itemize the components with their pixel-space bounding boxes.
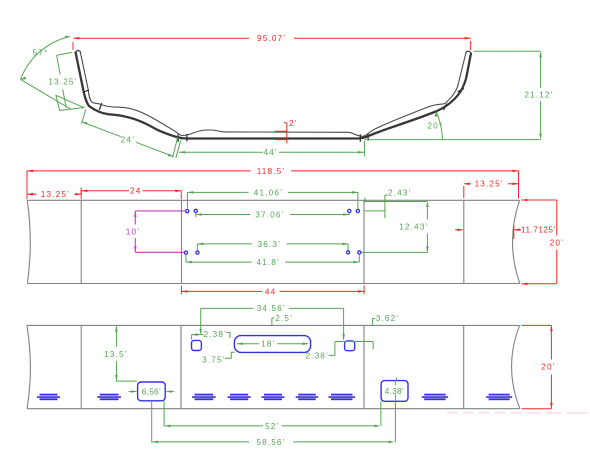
dimension 21.12 (green, right height) [474, 51, 554, 139]
svg-text:58.56’: 58.56’ [256, 438, 285, 447]
svg-text:13.25’: 13.25’ [41, 190, 70, 199]
tow hole box right (4.38) [381, 381, 408, 402]
svg-text:12.43’: 12.43’ [399, 222, 428, 231]
dimension 3.75 left (green) [202, 352, 235, 364]
svg-text:44: 44 [265, 287, 276, 296]
front bend line 2 [180, 325, 182, 408]
holes top row (blue) [184, 209, 361, 254]
svg-text:2.5’: 2.5’ [275, 314, 293, 323]
front bottom edge [27, 408, 520, 410]
svg-text:44’: 44’ [264, 148, 278, 157]
svg-text:10’: 10’ [126, 227, 140, 236]
dimension 13.25 right (red) [464, 180, 519, 199]
big arrow at elbow [56, 95, 84, 110]
louvre 7 [329, 394, 356, 400]
dimension 41.8 (green) [186, 254, 359, 267]
louvre 6 [296, 394, 319, 400]
dimension 20 (red, bottom right) [522, 325, 556, 408]
dimension 6.56 (green, in box) [129, 387, 174, 396]
plate left arc edge [27, 200, 30, 283]
dimension 24 (red) [81, 187, 181, 200]
svg-text:41.06’: 41.06’ [254, 188, 283, 197]
svg-text:2.38’: 2.38’ [305, 352, 329, 361]
svg-text:118.5’: 118.5’ [257, 167, 286, 176]
louvre 3 [192, 394, 216, 400]
dimension 13.5 (green) [104, 326, 137, 382]
joint tick right diagonal [444, 104, 447, 109]
svg-text:20°: 20° [427, 122, 443, 131]
joint ticks right flat bend [360, 134, 368, 141]
dimension 41.06 (green) [187, 188, 358, 209]
louvres (blue vents) [37, 394, 512, 400]
svg-text:24: 24 [130, 187, 141, 196]
dimension 2.38 left (green) [192, 330, 230, 340]
svg-text:13.5’: 13.5’ [104, 350, 128, 359]
joint tick right bar [458, 89, 464, 92]
dimension 13.25 (green, left bar) [48, 52, 83, 110]
front bend line 3 [363, 325, 365, 408]
svg-text:3.75’: 3.75’ [202, 355, 226, 364]
svg-text:13.25’: 13.25’ [475, 180, 504, 189]
bumper outer contour (thick) [76, 53, 471, 139]
dimension 24 (green, left diagonal) [82, 110, 178, 158]
svg-text:24’: 24’ [121, 136, 135, 145]
joint tick left bar [83, 90, 89, 92]
svg-text:34.56’: 34.56’ [257, 304, 286, 313]
dimension 20 deg (green, right) [364, 111, 540, 139]
dimension 18 (green, slot) [237, 339, 309, 348]
dimension 12.43 (green) [361, 198, 429, 253]
dimension 13.25 left (red) [27, 190, 81, 199]
front bend line 1 [80, 325, 82, 408]
dimension 95.07 (red, top overall) [73, 34, 471, 50]
bend line 2 [181, 200, 183, 283]
svg-text:36.3’: 36.3’ [258, 240, 282, 249]
dimension 3.62 (green leader) [372, 314, 399, 326]
dimension 2.38 right (green) [305, 342, 373, 361]
louvre 5 [262, 394, 285, 400]
bend line 3 [363, 200, 365, 283]
holes bottom row (blue) [184, 251, 187, 254]
small square hole left [192, 340, 202, 350]
tow hole box left (6.56) [138, 382, 166, 401]
dimension 57 deg (green angle arc) [20, 36, 70, 109]
svg-text:37.06’: 37.06’ [255, 210, 284, 219]
svg-text:41.8’: 41.8’ [256, 258, 280, 267]
svg-text:4.38’: 4.38’ [385, 387, 404, 396]
dimension 36.3 (green) [197, 240, 348, 251]
dimension 44 (green, top view center) [176, 140, 365, 159]
dimension 118.5 (red overall middle) [27, 167, 519, 200]
svg-text:57°: 57° [33, 48, 49, 57]
svg-text:2’: 2’ [289, 119, 298, 128]
svg-text:2.43’: 2.43’ [388, 188, 412, 197]
louvre 4 [228, 394, 251, 400]
dimension 2 (red, center channel height) [275, 119, 298, 143]
center slot 18in (blue) [234, 336, 310, 353]
right tip cap [466, 51, 471, 54]
svg-text:95.07’: 95.07’ [257, 34, 286, 43]
dimension 11.7125 (red) [455, 225, 556, 239]
front right arc edge [512, 325, 520, 408]
svg-text:2.38’: 2.38’ [204, 330, 228, 339]
watermark dashes (faint pink) [447, 412, 588, 413]
plate right arc edge [512, 200, 519, 283]
bend line 4 [463, 200, 465, 283]
dimension 2.5 (green leader) [272, 314, 293, 326]
joint tick left diagonal [100, 104, 102, 110]
svg-text:3.62’: 3.62’ [376, 314, 400, 323]
front top edge [27, 324, 520, 326]
joint ticks left flat bend [178, 135, 187, 142]
louvre 8 [422, 394, 448, 400]
svg-text:18’: 18’ [261, 339, 275, 348]
bend line 1 [80, 200, 82, 283]
dimension 52 (green) [164, 401, 381, 431]
svg-text:52’: 52’ [265, 422, 279, 431]
dimension 44 (red, middle bottom) [181, 286, 364, 297]
front left arc edge [27, 325, 31, 408]
svg-text:6.56’: 6.56’ [142, 387, 161, 396]
dimension 58.56 (green) [152, 401, 395, 447]
dimension 10 (magenta) [126, 211, 185, 252]
louvre 1 [37, 394, 60, 400]
small square hole right [345, 341, 355, 351]
dimension 20 (red, middle right) [521, 199, 564, 285]
svg-text:13.25’: 13.25’ [48, 77, 77, 86]
left tip cap [76, 50, 81, 52]
svg-text:11.7125’: 11.7125’ [521, 226, 556, 235]
louvre 9 [486, 394, 512, 400]
plate top edge [27, 199, 519, 201]
dimension 37.06 (green) [196, 210, 349, 219]
bumper inner contour (thin) [80, 52, 466, 136]
dimension 4.38 (green, in box) [385, 378, 404, 443]
dimension 34.56 (green) [199, 304, 345, 340]
svg-text:21.12’: 21.12’ [524, 91, 553, 100]
svg-text:20’: 20’ [541, 363, 555, 372]
plate bottom edge [27, 283, 519, 285]
57deg lower ray [21, 79, 71, 108]
dimension 2.43 (green leader) [364, 188, 412, 218]
louvre 2 [97, 394, 121, 400]
front bend line 4 [463, 325, 465, 408]
svg-text:20’: 20’ [550, 238, 564, 247]
